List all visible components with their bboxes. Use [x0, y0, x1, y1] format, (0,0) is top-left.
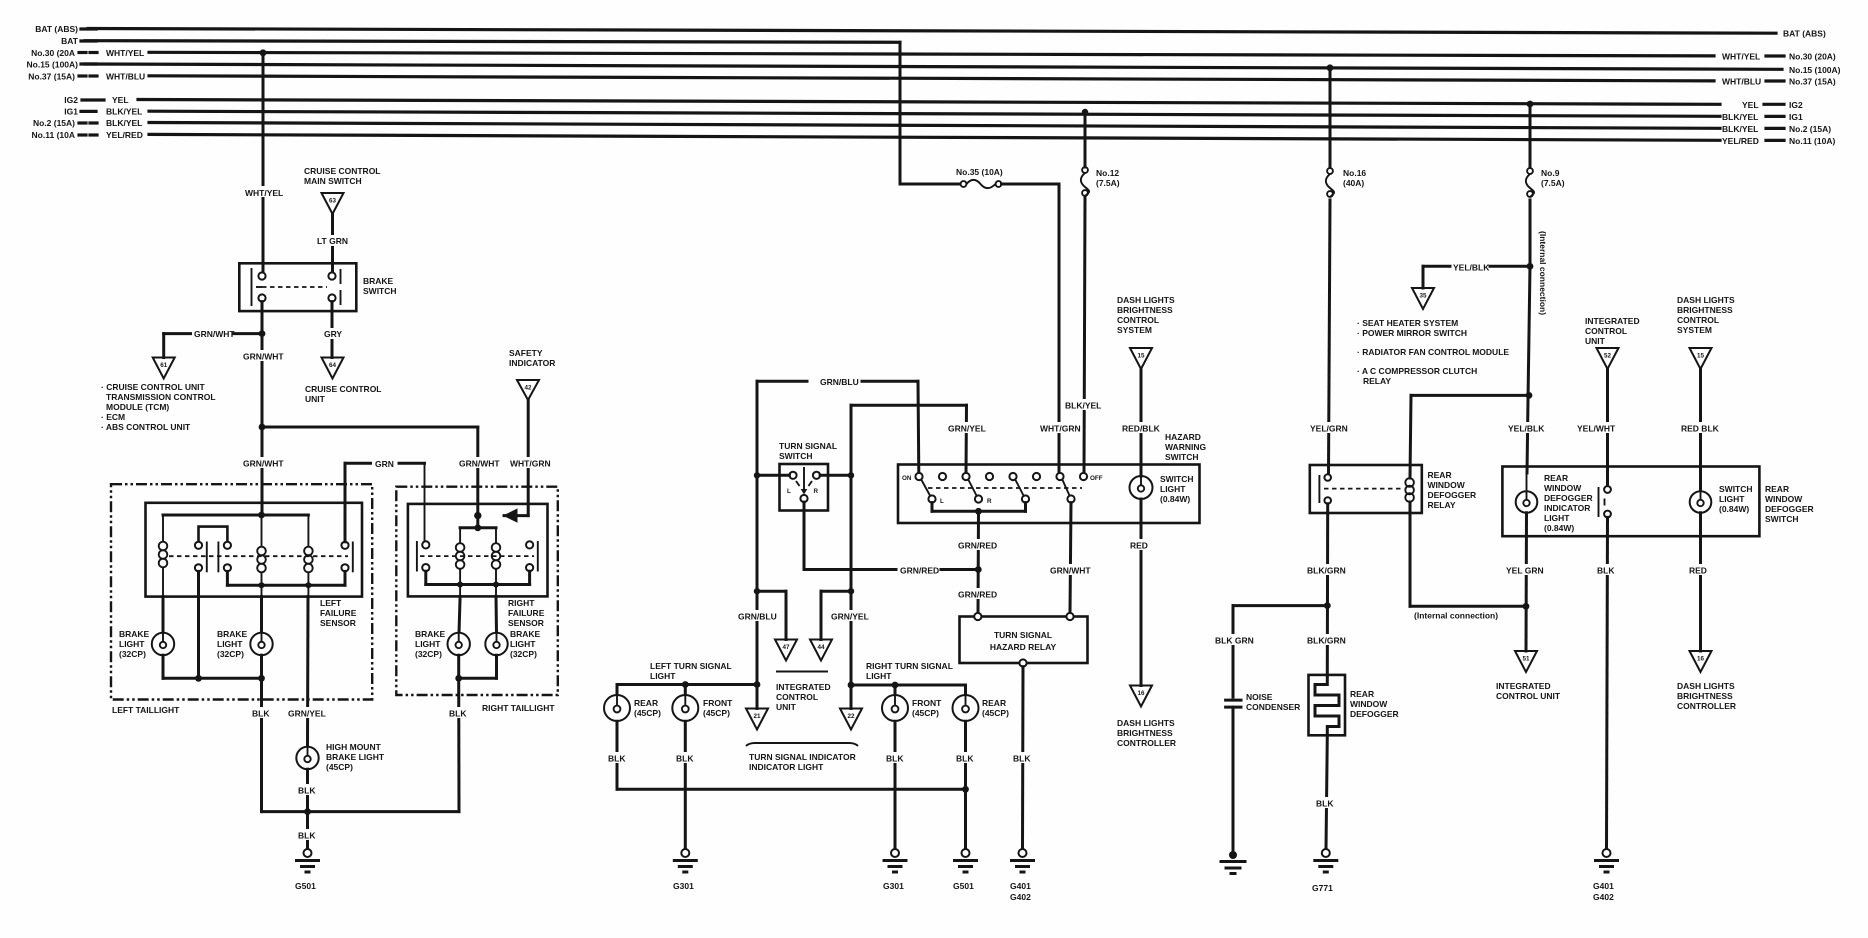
svg-text:42: 42: [524, 385, 532, 392]
wire RED/BLK from connector 15 to switch light: [1121, 369, 1163, 476]
svg-text:BRAKE: BRAKE: [217, 629, 248, 639]
right sensor linkage dashes: [420, 555, 534, 557]
svg-text:BLK GRN: BLK GRN: [1215, 636, 1254, 646]
svg-text:(45CP): (45CP): [912, 708, 939, 718]
svg-text:No.2 (15A): No.2 (15A): [33, 118, 75, 128]
svg-text:LIGHT: LIGHT: [866, 671, 892, 681]
svg-text:BLK/GRN: BLK/GRN: [1307, 566, 1346, 576]
wire bus No.37 (15A) WHT/BLU: [28, 72, 1836, 87]
high mount brake light bulb: [296, 742, 385, 772]
svg-text:No.37 (15A): No.37 (15A): [1789, 77, 1836, 87]
svg-text:CONDENSER: CONDENSER: [1246, 702, 1300, 712]
svg-text:DASH LIGHTS: DASH LIGHTS: [1677, 295, 1735, 305]
wire BLK left front bulb: [675, 721, 697, 849]
svg-text:No.16: No.16: [1343, 168, 1366, 178]
wire bus No.30 (20A) WHT/YEL: [31, 48, 1836, 62]
svg-text:35: 35: [1419, 293, 1427, 300]
svg-text:IG1: IG1: [64, 107, 78, 117]
svg-text:WARNING: WARNING: [1165, 442, 1206, 452]
svg-text:(7.5A): (7.5A): [1541, 178, 1565, 188]
svg-text:16: 16: [1137, 690, 1145, 697]
wire bus No.2 (15A) BLK/YEL: [33, 118, 1831, 134]
svg-text:BRAKE: BRAKE: [510, 629, 541, 639]
wire GRN/BLU loop: [757, 376, 919, 475]
svg-text:No.30 (20A): No.30 (20A): [1789, 52, 1836, 62]
svg-text:(40A): (40A): [1343, 178, 1364, 188]
ground G301 right: [883, 849, 906, 891]
left sensor coil 3: [304, 515, 313, 597]
svg-text:(32CP): (32CP): [415, 649, 442, 659]
turn signal rear bulb right: [953, 695, 1010, 721]
svg-text:(32CP): (32CP): [217, 649, 244, 659]
connector 35: [1412, 288, 1434, 309]
svg-text:HAZARD: HAZARD: [1165, 432, 1201, 442]
rear window defogger indicator light bulb: [1516, 473, 1593, 533]
svg-text:DASH LIGHTS: DASH LIGHTS: [1117, 718, 1175, 728]
svg-text:REAR: REAR: [1350, 689, 1374, 699]
connector 22: [840, 685, 862, 730]
svg-text:RED/BLK: RED/BLK: [1122, 424, 1161, 434]
svg-text:UNIT: UNIT: [305, 394, 326, 404]
wire BLK relay to ground: [1012, 667, 1034, 849]
svg-text:IG1: IG1: [1789, 112, 1803, 122]
svg-text:WHT/BLU: WHT/BLU: [106, 72, 145, 82]
svg-text:CONTROL UNIT: CONTROL UNIT: [1496, 691, 1561, 701]
wire BLK/GRN branch to noise condenser: [1214, 606, 1327, 697]
svg-text:GRN/RED: GRN/RED: [958, 590, 997, 600]
svg-text:(45CP): (45CP): [634, 708, 661, 718]
svg-text:WINDOW: WINDOW: [1544, 483, 1582, 493]
svg-text:RELAY: RELAY: [1428, 500, 1456, 510]
wire BLK right taillight: [448, 678, 470, 811]
wire RED/BLK right: [1680, 369, 1722, 491]
label turn signal indicator / indicator light: [746, 743, 858, 772]
svg-text:G301: G301: [673, 881, 694, 891]
wire GRN/RED from switch bottom: [804, 502, 979, 575]
svg-text:TURN SIGNAL: TURN SIGNAL: [779, 441, 837, 451]
connector 63 cruise control main switch: [304, 166, 381, 214]
svg-text:DEFOGGER: DEFOGGER: [1544, 493, 1593, 503]
svg-text:SWITCH: SWITCH: [779, 451, 813, 461]
wire GRN/YEL to high mount brake light: [287, 597, 327, 747]
svg-text:LIGHT: LIGHT: [1719, 494, 1745, 504]
svg-text:(0.84W): (0.84W): [1160, 494, 1190, 504]
turn signal rear bulb left: [604, 695, 661, 721]
svg-text:BLK: BLK: [608, 754, 626, 764]
svg-text:(Internal connection): (Internal connection): [1538, 231, 1548, 315]
right sensor right contact: [526, 541, 538, 572]
ground G401 G402 center: [1010, 849, 1034, 902]
svg-text:RED: RED: [1689, 566, 1707, 576]
svg-text:INTEGRATED: INTEGRATED: [1585, 316, 1640, 326]
svg-text:G401: G401: [1010, 881, 1031, 891]
right taillight bulb common wire: [455, 655, 496, 681]
svg-text:YEL GRN: YEL GRN: [1506, 566, 1544, 576]
connector 52 integrated control unit top: [1585, 316, 1640, 369]
svg-text:(7.5A): (7.5A): [1096, 178, 1120, 188]
svg-text:WHT/YEL: WHT/YEL: [106, 48, 144, 58]
brake light bulb L1: [119, 597, 174, 659]
ground G401 G402 right: [1593, 849, 1618, 902]
hazard switch bottom bracket: [932, 503, 1026, 515]
svg-text:44: 44: [817, 644, 825, 651]
wire BLK defogger to G771: [1315, 735, 1337, 849]
chassis ground below noise condenser: [1221, 851, 1245, 874]
fuse No.12 (7.5A): [1081, 167, 1120, 196]
svg-text:61: 61: [160, 362, 168, 369]
svg-text:WHT/YEL: WHT/YEL: [245, 188, 283, 198]
svg-text:HAZARD RELAY: HAZARD RELAY: [990, 642, 1057, 652]
svg-text:CONTROL: CONTROL: [776, 692, 818, 702]
turn signal front bulb right: [882, 695, 942, 721]
svg-text:BLK/YEL: BLK/YEL: [1065, 401, 1101, 411]
svg-text:RED: RED: [1130, 541, 1148, 551]
svg-text:· ECM: · ECM: [101, 412, 125, 422]
svg-text:BRAKE: BRAKE: [363, 276, 394, 286]
svg-text:No.30 (20A: No.30 (20A: [31, 48, 75, 58]
connector 51 integrated control unit: [1496, 651, 1561, 701]
connector 15 dash lights brightness control system center: [1117, 295, 1175, 369]
svg-text:GRN/WHT: GRN/WHT: [1050, 566, 1091, 576]
svg-text:BLK/GRN: BLK/GRN: [1307, 636, 1346, 646]
svg-text:YEL: YEL: [112, 95, 129, 105]
svg-text:BLK: BLK: [676, 754, 694, 764]
svg-text:RELAY: RELAY: [1363, 376, 1391, 386]
svg-text:GRN/YEL: GRN/YEL: [288, 709, 326, 719]
svg-text:FRONT: FRONT: [703, 698, 733, 708]
svg-text:WINDOW: WINDOW: [1765, 494, 1803, 504]
svg-text:LIGHT: LIGHT: [119, 639, 145, 649]
connector 16 dash lights brightness controller center: [1117, 686, 1176, 749]
svg-text:GRN/YEL: GRN/YEL: [948, 424, 986, 434]
brake switch: [239, 263, 396, 311]
svg-text:TURN SIGNAL INDICATOR: TURN SIGNAL INDICATOR: [749, 752, 856, 762]
svg-text:YEL/WHT: YEL/WHT: [1577, 424, 1616, 434]
wire WHT/GRN from safety indicator into right taillight: [474, 400, 550, 523]
svg-text:WINDOW: WINDOW: [1428, 480, 1466, 490]
svg-text:L: L: [940, 498, 944, 505]
svg-text:· CRUISE CONTROL UNIT: · CRUISE CONTROL UNIT: [101, 382, 206, 392]
svg-text:G301: G301: [883, 881, 904, 891]
svg-text:LEFT TAILLIGHT: LEFT TAILLIGHT: [112, 705, 180, 715]
svg-text:INDICATOR LIGHT: INDICATOR LIGHT: [749, 762, 824, 772]
svg-text:SWITCH: SWITCH: [363, 286, 397, 296]
svg-text:GRN/WHT: GRN/WHT: [459, 459, 500, 469]
wire GRN/WHT main vertical: [241, 334, 284, 512]
svg-text:CONTROL: CONTROL: [1677, 315, 1719, 325]
wire RED from switch light to controller: [1129, 499, 1154, 686]
svg-text:MAIN SWITCH: MAIN SWITCH: [304, 176, 362, 186]
svg-text:RIGHT TAILLIGHT: RIGHT TAILLIGHT: [482, 703, 555, 713]
svg-text:CONTROLLER: CONTROLLER: [1677, 701, 1736, 711]
svg-text:INTEGRATED: INTEGRATED: [776, 682, 831, 692]
svg-text:RED BLK: RED BLK: [1681, 424, 1720, 434]
svg-text:No.37 (15A): No.37 (15A): [28, 72, 75, 82]
connector 21: [746, 685, 768, 730]
svg-text:SYSTEM: SYSTEM: [1117, 325, 1152, 335]
svg-text:No.9: No.9: [1541, 168, 1560, 178]
wire BLK/YEL from IG1 through fuse No.12: [1064, 109, 1104, 473]
rear window defogger: [1309, 675, 1399, 735]
svg-text:IG2: IG2: [64, 95, 78, 105]
wire GRN/YEL vertical to ICU and right turn lights: [821, 475, 870, 685]
wire BAT drop to fuse No.35: [900, 42, 960, 184]
svg-text:RIGHT: RIGHT: [508, 598, 535, 608]
svg-text:GRN/RED: GRN/RED: [958, 541, 997, 551]
wire BLK/GRN from relay contact: [1306, 504, 1348, 675]
svg-text:OFF: OFF: [1090, 475, 1103, 482]
right sensor bottom rail: [426, 571, 530, 587]
wire GRN/BLU vertical to ICU and left turn lights: [737, 475, 786, 685]
label cruise control unit / TCM / ECM / ABS list: [101, 382, 216, 432]
svg-text:52: 52: [1604, 353, 1612, 360]
right sensor coil 2: [492, 543, 501, 596]
wire internal connection branch to defogger relay coil: [1410, 392, 1532, 478]
svg-text:BLK: BLK: [449, 709, 467, 719]
right turn signal top wire: [848, 682, 966, 695]
brake light bulb L2: [217, 597, 273, 659]
svg-text:LIGHT: LIGHT: [1160, 484, 1186, 494]
svg-text:BLK: BLK: [252, 709, 270, 719]
svg-text:BAT: BAT: [61, 36, 79, 46]
rear window defogger relay: [1310, 465, 1476, 513]
svg-text:WINDOW: WINDOW: [1350, 699, 1388, 709]
svg-text:BRAKE: BRAKE: [119, 629, 150, 639]
wire WHT/GRN from fuse 35 to hazard switch: [1002, 184, 1082, 473]
right failure sensor box: [408, 504, 548, 628]
svg-text:WHT/YEL: WHT/YEL: [1722, 52, 1760, 62]
fuse No.16 (40A): [1326, 168, 1367, 197]
svg-text:TURN SIGNAL: TURN SIGNAL: [994, 630, 1052, 640]
svg-text:22: 22: [847, 713, 855, 720]
wire bus No.11 (10A) YEL/RED: [32, 130, 1836, 146]
svg-text:GRN/WHT: GRN/WHT: [243, 459, 284, 469]
svg-text:IG2: IG2: [1789, 100, 1803, 110]
ground rail under taillights: [262, 769, 460, 815]
left sensor contact pair with bracket: [195, 527, 231, 573]
right taillight dashed enclosure: [396, 487, 558, 713]
left sensor coil 1: [159, 515, 168, 597]
svg-text:WHT/GRN: WHT/GRN: [1040, 424, 1081, 434]
svg-text:BLK: BLK: [1316, 799, 1334, 809]
wire internal connection defogger coil to ICU: [1410, 502, 1529, 621]
wire GRN to right sensor: [345, 458, 425, 541]
fuse No.35 (10A): [956, 167, 1003, 188]
svg-text:G501: G501: [295, 881, 316, 891]
svg-text:WHT/BLU: WHT/BLU: [1722, 77, 1761, 87]
svg-text:CRUISE CONTROL: CRUISE CONTROL: [304, 166, 381, 176]
left sensor bottom rail: [199, 571, 346, 596]
svg-text:R: R: [987, 498, 992, 505]
svg-text:BLK: BLK: [886, 754, 904, 764]
left sensor linkage dashes: [169, 555, 348, 557]
svg-text:BLK/YEL: BLK/YEL: [1722, 124, 1758, 134]
svg-text:FRONT: FRONT: [912, 698, 942, 708]
svg-text:BLK/YEL: BLK/YEL: [106, 107, 142, 117]
svg-text:LIGHT: LIGHT: [1544, 513, 1570, 523]
wire switch right terminal to GRN/YEL riser: [820, 472, 854, 478]
svg-text:G402: G402: [1010, 892, 1031, 902]
svg-text:REAR: REAR: [1765, 484, 1789, 494]
hazard warning switch box: [898, 432, 1206, 523]
svg-text:BRAKE LIGHT: BRAKE LIGHT: [326, 752, 385, 762]
svg-text:GRN/YEL: GRN/YEL: [831, 612, 869, 622]
svg-text:REAR: REAR: [982, 698, 1006, 708]
svg-text:CONTROL: CONTROL: [1117, 315, 1159, 325]
svg-text:15: 15: [1697, 353, 1705, 360]
noise condenser: [1226, 692, 1301, 852]
wire GRN/WHT branch to right failure sensor: [262, 427, 500, 516]
wire BLK right rear bulb: [955, 721, 977, 849]
turn signal switch: [779, 441, 837, 511]
svg-text:L: L: [787, 488, 791, 495]
svg-text:SYSTEM: SYSTEM: [1677, 325, 1712, 335]
svg-text:LT GRN: LT GRN: [317, 236, 348, 246]
svg-text:BRIGHTNESS: BRIGHTNESS: [1677, 305, 1733, 315]
svg-text:BRAKE: BRAKE: [415, 629, 446, 639]
left turn signal top wire: [617, 681, 760, 695]
svg-text:BLK: BLK: [298, 831, 316, 841]
svg-text:BRIGHTNESS: BRIGHTNESS: [1117, 305, 1173, 315]
ground G501 left: [295, 849, 319, 891]
svg-text:47: 47: [782, 644, 790, 651]
svg-text:YEL/RED: YEL/RED: [106, 130, 143, 140]
hazard switch light bulb: [1130, 474, 1194, 504]
svg-text:21: 21: [753, 713, 761, 720]
svg-text:G771: G771: [1312, 883, 1333, 893]
svg-text:DEFOGGER: DEFOGGER: [1350, 709, 1399, 719]
svg-text:GRN: GRN: [375, 459, 394, 469]
svg-text:· SEAT HEATER SYSTEM: · SEAT HEATER SYSTEM: [1357, 318, 1458, 328]
svg-text:(32CP): (32CP): [119, 649, 146, 659]
svg-text:HIGH MOUNT: HIGH MOUNT: [326, 742, 382, 752]
svg-text:WHT/GRN: WHT/GRN: [510, 459, 551, 469]
svg-text:· A C COMPRESSOR CLUTCH: · A C COMPRESSOR CLUTCH: [1357, 366, 1477, 376]
wire bus IG1 BLK/YEL: [64, 107, 1803, 122]
svg-text:SWITCH: SWITCH: [1765, 514, 1799, 524]
svg-text:DEFOGGER: DEFOGGER: [1428, 490, 1477, 500]
wire bus BAT: [61, 36, 900, 46]
svg-text:CRUISE CONTROL: CRUISE CONTROL: [305, 384, 382, 394]
svg-text:BLK/YEL: BLK/YEL: [1722, 112, 1758, 122]
connector 16 dash lights brightness controller right: [1677, 651, 1736, 711]
connector 64 cruise control unit: [305, 358, 382, 405]
svg-text:63: 63: [329, 198, 337, 205]
svg-text:GRY: GRY: [324, 329, 342, 339]
wire bus No.15 (100A): [27, 60, 1841, 75]
wire GRN/WHT branch to cruise/TCM connector: [164, 302, 266, 358]
svg-text:DASH LIGHTS: DASH LIGHTS: [1677, 681, 1735, 691]
svg-text:(0.84W): (0.84W): [1719, 504, 1749, 514]
svg-text:ON: ON: [902, 475, 912, 482]
left taillight bulb common wire: [163, 597, 265, 682]
wire GRY: [322, 302, 344, 358]
svg-text:YEL/BLK: YEL/BLK: [1453, 263, 1490, 273]
svg-text:UNIT: UNIT: [776, 702, 797, 712]
svg-text:INTEGRATED: INTEGRATED: [1496, 681, 1551, 691]
label seat heater / power mirror / radiator fan / compressor list: [1357, 318, 1509, 386]
svg-text:RIGHT TURN SIGNAL: RIGHT TURN SIGNAL: [866, 661, 953, 671]
svg-text:GRN/BLU: GRN/BLU: [738, 612, 777, 622]
right sensor coil bracket: [460, 528, 496, 543]
wire GRN/RED from hazard bracket to relay: [957, 511, 999, 613]
svg-text:YEL/RED: YEL/RED: [1722, 136, 1759, 146]
svg-text:YEL: YEL: [1742, 100, 1759, 110]
svg-text:LIGHT: LIGHT: [415, 639, 441, 649]
svg-text:SWITCH: SWITCH: [1160, 474, 1194, 484]
wire GRN/WHT from hazard switch to relay: [1049, 503, 1091, 613]
left sensor right contact: [341, 463, 352, 572]
svg-text:· RADIATOR FAN CONTROL MODULE: · RADIATOR FAN CONTROL MODULE: [1357, 347, 1509, 357]
svg-text:BRIGHTNESS: BRIGHTNESS: [1117, 728, 1173, 738]
connector 15 dash lights brightness control system right: [1677, 295, 1735, 369]
svg-text:CONTROLLER: CONTROLLER: [1117, 738, 1176, 748]
svg-text:BLK/YEL: BLK/YEL: [106, 118, 142, 128]
svg-text:No.35 (10A): No.35 (10A): [956, 167, 1003, 177]
svg-text:15: 15: [1137, 353, 1145, 360]
svg-text:INDICATOR: INDICATOR: [509, 358, 555, 368]
connector 47: [775, 640, 797, 661]
wire BLK defogger switch to ground: [1596, 517, 1620, 849]
defogger switch contact: [1599, 486, 1611, 517]
switch light bulb right: [1690, 484, 1753, 514]
left failure sensor box: [146, 503, 363, 628]
svg-text:No.11 (10A): No.11 (10A): [1789, 136, 1835, 146]
svg-text:(45CP): (45CP): [326, 762, 353, 772]
right sensor arrow junction: [474, 512, 481, 531]
svg-text:(0.84W): (0.84W): [1544, 523, 1574, 533]
svg-text:BLK: BLK: [1013, 754, 1031, 764]
ground G501 right: [953, 849, 977, 891]
svg-text:LEFT TURN SIGNAL: LEFT TURN SIGNAL: [650, 661, 732, 671]
connector 61: [153, 358, 175, 379]
wire GRN/YEL riser to hazard switch: [851, 405, 986, 475]
svg-text:(32CP): (32CP): [510, 649, 537, 659]
connector 44: [810, 640, 832, 661]
wire bus BAT(ABS): [35, 24, 1826, 39]
svg-text:NOISE: NOISE: [1246, 692, 1273, 702]
svg-text:R: R: [814, 488, 819, 495]
svg-text:SENSOR: SENSOR: [320, 618, 356, 628]
svg-text:YEL/BLK: YEL/BLK: [1508, 424, 1545, 434]
right turn signal light label: [866, 661, 953, 681]
svg-text:BLK: BLK: [298, 786, 316, 796]
svg-text:16: 16: [1697, 656, 1705, 663]
svg-text:BAT (ABS): BAT (ABS): [35, 24, 78, 34]
svg-text:No.11 (10A: No.11 (10A: [32, 130, 75, 140]
left turn signal light label: [650, 661, 732, 681]
svg-text:BRIGHTNESS: BRIGHTNESS: [1677, 691, 1733, 701]
left sensor coil 2: [257, 515, 266, 597]
left taillight dashed enclosure: [111, 484, 372, 715]
svg-text:(45CP): (45CP): [703, 708, 730, 718]
svg-text:No.15 (100A): No.15 (100A): [27, 60, 79, 70]
svg-text:FAILURE: FAILURE: [320, 608, 357, 618]
svg-text:51: 51: [1522, 656, 1530, 663]
label integrated control unit center: [776, 672, 831, 713]
wire bus IG2 YEL: [64, 95, 1803, 110]
right sensor coil 1: [456, 543, 465, 596]
wire switch left terminal: [754, 472, 790, 478]
wire YEL/GRN from indicator light to ICU: [1505, 513, 1547, 651]
fuse No.9 (7.5A): [1526, 168, 1565, 197]
svg-text:LIGHT: LIGHT: [650, 671, 676, 681]
turn signal ground bus wire: [617, 786, 969, 793]
svg-text:DEFOGGER: DEFOGGER: [1765, 504, 1814, 514]
connector 42 safety indicator: [509, 348, 555, 400]
brake light bulb R1: [415, 596, 470, 659]
svg-text:No.15 (100A): No.15 (100A): [1789, 65, 1841, 75]
